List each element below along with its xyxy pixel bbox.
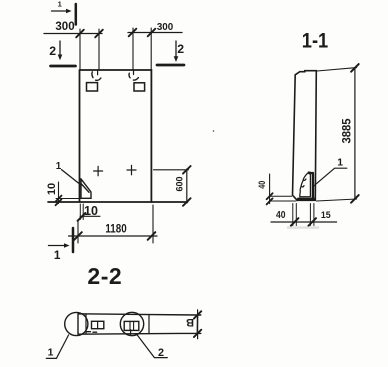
stray dot — [213, 130, 215, 132]
dimension B: line — [197, 310, 199, 339]
tick — [183, 198, 191, 206]
svg-text:В: В — [186, 316, 194, 328]
dimension 1180: extensions — [78, 205, 153, 243]
tick — [76, 30, 84, 38]
svg-text:1: 1 — [48, 348, 54, 359]
section marker 1 bottom: arrow — [49, 243, 70, 248]
dimension 600: line — [186, 169, 188, 203]
weld scribble blob — [300, 173, 311, 197]
section 1-1 outline — [293, 71, 317, 201]
section marker 2 left: arrow — [58, 41, 63, 60]
inner vertical right — [148, 315, 150, 334]
lifting loop stub left — [97, 70, 99, 75]
section marker 2 left: thick line — [51, 65, 76, 68]
tick — [351, 64, 359, 72]
tick — [148, 29, 156, 37]
svg-text:40: 40 — [276, 210, 285, 221]
corner angle detail (front view) — [81, 179, 91, 199]
svg-text:2: 2 — [158, 347, 164, 359]
svg-text:300: 300 — [157, 22, 174, 33]
leader 2 (2-2) — [136, 334, 167, 358]
section marker 1 top: arrow — [52, 9, 72, 14]
dimension 3885: extension bottom — [317, 199, 357, 201]
stub below box 2 — [130, 330, 132, 336]
extension — [56, 198, 81, 200]
tick — [148, 232, 156, 240]
dashes below box 1 — [87, 331, 97, 334]
section marker 2 right: arrow — [174, 41, 179, 62]
angle bracket thick bottom — [298, 198, 314, 200]
dimension 10 bottom: line — [80, 215, 100, 217]
angle bracket hook — [309, 171, 313, 174]
svg-text:1: 1 — [54, 248, 61, 262]
panel bottom edge with extensions — [48, 201, 188, 203]
tick — [351, 195, 359, 203]
plus mark left — [94, 166, 103, 175]
tick — [56, 199, 62, 205]
plus mark right — [127, 165, 136, 174]
tick — [267, 193, 273, 199]
extension line — [150, 28, 152, 70]
svg-text:1: 1 — [337, 158, 343, 169]
extension line — [132, 28, 134, 70]
svg-text:2-2: 2-2 — [87, 263, 122, 289]
dimension 3885: extension top — [317, 68, 357, 71]
svg-text:10: 10 — [84, 204, 98, 218]
circle detail 1 — [65, 312, 88, 335]
tick — [56, 196, 62, 202]
panel front view outline — [80, 70, 152, 202]
svg-text:40: 40 — [257, 180, 267, 188]
anchor box right — [134, 83, 145, 91]
lifting loop arc left (dashed) — [92, 72, 101, 81]
dimension 40/15 bottom (1-1): extensions — [293, 204, 314, 226]
tick — [74, 232, 82, 240]
svg-text:2: 2 — [49, 44, 56, 58]
extension — [270, 200, 296, 202]
tick — [308, 218, 316, 226]
tick — [95, 30, 103, 38]
dimension line 40/15 — [271, 221, 337, 223]
svg-text:3885: 3885 — [340, 118, 353, 144]
extension line — [98, 29, 100, 70]
svg-text:10: 10 — [46, 183, 58, 195]
anchor box left — [87, 83, 98, 91]
tick — [129, 29, 137, 37]
dimension 40 left (1-1): line — [269, 174, 271, 204]
anchor box 1 (2-2) — [92, 321, 104, 328]
leader 1 (2-2) — [46, 335, 68, 359]
dimension 3885: line — [354, 68, 356, 200]
svg-text:1-1: 1-1 — [302, 29, 328, 53]
svg-text:15: 15 — [321, 210, 331, 220]
lifting loop arc right (dashed) — [129, 73, 138, 80]
dimension line 300 right — [128, 32, 182, 34]
faint smudge — [288, 226, 318, 229]
tick — [267, 198, 273, 204]
tick — [194, 311, 201, 318]
dimension 1180: line — [69, 235, 158, 237]
angle bracket thick vertical — [312, 173, 314, 199]
anchor box 2 (2-2) — [124, 321, 139, 330]
dimension 600: extension top — [154, 169, 189, 171]
extension line — [79, 29, 81, 70]
svg-text:1: 1 — [56, 161, 62, 172]
tick — [291, 218, 299, 226]
section 2-2 bar outline — [78, 314, 201, 334]
tick — [78, 213, 86, 221]
lifting loop stub right — [133, 70, 135, 75]
tick — [183, 166, 191, 174]
section marker 2 right: thick line — [157, 64, 184, 67]
section marker 1 top: thick line — [75, 4, 78, 25]
inner vertical left — [85, 314, 87, 334]
circle detail 2 — [120, 312, 143, 335]
dimension line 300 left — [44, 33, 102, 35]
svg-text:300: 300 — [55, 21, 74, 33]
svg-text:1180: 1180 — [105, 223, 126, 236]
svg-text:2: 2 — [177, 42, 184, 56]
svg-text:1: 1 — [58, 0, 62, 8]
dimension 10 bottom: extensions — [80, 204, 83, 220]
leader to detail 1 — [62, 170, 81, 185]
svg-text:600: 600 — [174, 176, 184, 191]
dimension 10 left: line — [58, 182, 60, 204]
extension — [270, 195, 292, 197]
section marker 1 bottom: thick line — [72, 228, 75, 252]
leader to detail 1 (section 1-1) — [314, 168, 347, 186]
tick — [194, 330, 201, 337]
